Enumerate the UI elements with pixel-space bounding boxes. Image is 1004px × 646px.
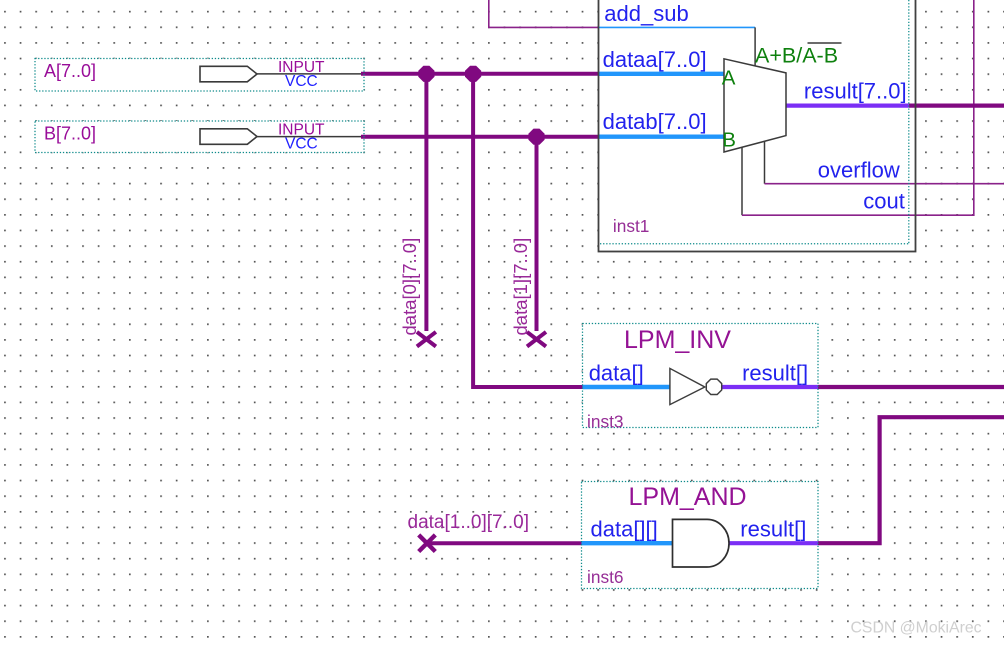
bus tap data[1] vertical	[535, 137, 539, 331]
bus LPM_INV output violet stub	[721, 385, 818, 389]
svg-text:inst3: inst3	[587, 412, 624, 432]
svg-text:result[]: result[]	[742, 361, 808, 386]
svg-text:datab[7..0]: datab[7..0]	[603, 109, 707, 134]
white area LPM_INV block	[583, 324, 819, 428]
svg-text:data[1][7..0]: data[1][7..0]	[510, 238, 531, 336]
pin symbol B	[200, 129, 257, 145]
X tap data[1..0]	[419, 535, 436, 552]
svg-text:dataa[7..0]: dataa[7..0]	[603, 47, 707, 72]
wire add_sub outside	[489, 0, 599, 27]
overline on A-B	[808, 42, 842, 44]
white area adder block U1	[599, 0, 916, 252]
bus stub datab	[599, 134, 725, 138]
svg-text:data[][]: data[][]	[591, 517, 658, 542]
wire stub add_sub blue	[599, 26, 756, 28]
inverter bubble	[706, 379, 721, 394]
svg-text:data[0][7..0]: data[0][7..0]	[399, 238, 420, 336]
svg-text:data[]: data[]	[589, 361, 644, 386]
X tap data[0]	[417, 332, 436, 347]
pin symbol A	[200, 66, 257, 82]
svg-text:VCC: VCC	[285, 135, 318, 152]
svg-text:data[1..0][7..0]: data[1..0][7..0]	[408, 512, 529, 533]
svg-text:B[7..0]: B[7..0]	[44, 123, 96, 143]
symbol stub overflow	[764, 141, 766, 183]
svg-text:CSDN @MokiArec: CSDN @MokiArec	[851, 619, 982, 636]
svg-text:result[7..0]: result[7..0]	[804, 79, 907, 104]
wire pin B black segment	[256, 136, 362, 138]
bus LPM_AND output violet stub	[728, 541, 818, 545]
svg-text:LPM_AND: LPM_AND	[629, 483, 747, 511]
svg-text:inst6: inst6	[587, 567, 624, 587]
bus LPM_AND output outside	[818, 417, 1004, 543]
white area pin A	[35, 59, 364, 92]
bus LPM_AND input blue stub	[582, 541, 673, 545]
junction on bus B	[528, 129, 544, 145]
junction on bus A	[418, 66, 434, 82]
svg-text:A[7..0]: A[7..0]	[44, 61, 96, 81]
selection box pin A	[35, 59, 364, 92]
svg-text:A+B/A-B: A+B/A-B	[755, 44, 838, 68]
bus LPM_INV input blue stub	[583, 385, 670, 389]
adder symbol trapezoid	[724, 59, 786, 152]
adder block border	[599, 0, 916, 252]
wire cout	[742, 0, 974, 215]
svg-text:result[]: result[]	[740, 517, 806, 542]
selection box LPM_AND	[582, 482, 819, 589]
white area pin B	[35, 121, 364, 153]
bus LPM_AND input outside	[427, 541, 582, 545]
selection box adder bottom	[600, 243, 909, 245]
selection box adder right	[908, 0, 910, 244]
AND gate U6	[673, 519, 730, 567]
white area LPM_AND block	[582, 482, 819, 589]
svg-text:LPM_INV: LPM_INV	[624, 326, 731, 354]
bus result outside	[909, 103, 1004, 107]
selection box LPM_INV	[583, 324, 819, 428]
bus tap data[0] vertical	[424, 74, 428, 331]
svg-text:inst1: inst1	[613, 216, 650, 236]
bus LPM_INV output outside	[818, 385, 1004, 389]
svg-text:VCC: VCC	[285, 73, 318, 90]
svg-text:overflow: overflow	[818, 157, 900, 182]
X tap data[1]	[527, 332, 546, 347]
bus result stub violet	[786, 103, 909, 107]
junction on bus A 2	[465, 66, 481, 82]
bus stub dataa	[599, 72, 725, 76]
inverter triangle U3	[670, 368, 705, 404]
wire pin A black segment	[256, 73, 362, 75]
bus B	[361, 135, 599, 139]
symbol line add_sub vertical	[754, 27, 756, 66]
bus tap to LPM_INV vertical	[473, 74, 582, 387]
svg-text:A: A	[722, 67, 736, 90]
wire overflow	[765, 183, 1004, 185]
svg-text:B: B	[722, 129, 736, 152]
selection box pin B	[35, 121, 364, 153]
bus A	[361, 72, 599, 76]
svg-text:add_sub: add_sub	[604, 1, 688, 26]
symbol stub cout	[741, 147, 743, 215]
svg-text:cout: cout	[863, 189, 905, 214]
